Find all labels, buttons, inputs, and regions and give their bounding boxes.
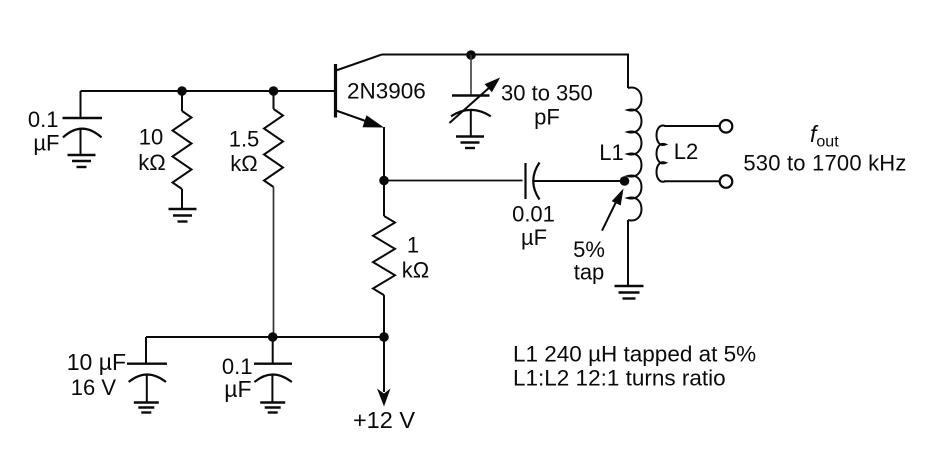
svg-text:10 µF: 10 µF (67, 349, 126, 375)
node: base rail / 1.5k junction (269, 86, 279, 96)
svg-text:530 to 1700 kHz: 530 to 1700 kHz (743, 151, 906, 176)
svg-text:1.5: 1.5 (229, 127, 260, 152)
node: bottom rail / 1k junction (379, 332, 389, 342)
svg-text:0.01: 0.01 (512, 202, 555, 227)
wire: L2 bottom to terminal (664, 180, 720, 182)
value label 1 kOhm (402, 233, 429, 283)
resistor R 10k (173, 91, 192, 208)
capacitor 10uF 16V (127, 337, 167, 402)
value label 10 uF 16 V (67, 349, 126, 400)
svg-text:kΩ: kΩ (230, 151, 257, 176)
label 5% tap (573, 237, 605, 285)
svg-text:2N3906: 2N3906 (347, 79, 426, 104)
value label 30 to 350 pF (501, 81, 593, 130)
svg-text:kΩ: kΩ (138, 150, 165, 175)
value label 1.5 kOhm (229, 127, 260, 177)
ground (below bottom 0.1uF) (260, 403, 285, 413)
svg-text:0.1: 0.1 (28, 107, 59, 132)
node: L1 5% tap (620, 176, 630, 186)
svg-text:kΩ: kΩ (402, 258, 429, 283)
svg-text:µF: µF (33, 131, 59, 156)
annotation arrow to tap (602, 189, 624, 231)
svg-text:tap: tap (574, 260, 605, 285)
wire: collector to mid node (383, 127, 385, 181)
transistor Q1 2N3906 (336, 55, 385, 128)
ground (below L1) (615, 286, 644, 299)
svg-text:L1:L2 12:1 turns ratio: L1:L2 12:1 turns ratio (513, 366, 726, 391)
ground (below 10uF) (134, 403, 159, 413)
svg-text:µF: µF (521, 225, 547, 250)
svg-text:1: 1 (407, 233, 419, 258)
node: collector / 1k / 0.01uF junction (379, 176, 389, 186)
svg-text:L1 240 µH tapped at 5%: L1 240 µH tapped at 5% (513, 341, 756, 366)
node: base rail / 10k junction (177, 86, 187, 96)
capacitor 0.01uF (526, 163, 540, 200)
wire: 0.01uF to L1 tap (534, 180, 625, 182)
inductor L1 (628, 87, 642, 285)
wire: 1.5k resistor to bottom rail (273, 187, 275, 337)
svg-text:16 V: 16 V (71, 375, 117, 400)
svg-text:+12 V: +12 V (353, 407, 415, 433)
svg-text:L2: L2 (674, 139, 698, 164)
resistor R 1k (373, 181, 395, 338)
capacitor 0.1uF (top-left) (63, 91, 103, 154)
svg-text:10: 10 (139, 125, 163, 150)
wire: base rail (81, 90, 336, 92)
node: top rail / variable capacitor junction (466, 50, 476, 60)
ground (below variable capacitor) (456, 137, 484, 149)
variable capacitor 30-350 pF (449, 55, 500, 136)
wire: L2 top to terminal (664, 125, 720, 127)
power +12V arrow (377, 337, 391, 407)
ground (below top-left 0.1uF) (68, 155, 96, 167)
capacitor 0.1uF (bottom) (254, 337, 292, 402)
svg-text:fout: fout (810, 121, 839, 151)
output terminal (bottom) (720, 175, 733, 188)
svg-text:30 to 350: 30 to 350 (501, 81, 593, 106)
value label 0.1 uF (bottom) (222, 354, 253, 402)
wire: bottom rail (146, 336, 384, 338)
value label 0.1 uF (top-left) (28, 107, 60, 156)
svg-text:5%: 5% (573, 237, 605, 262)
ground (below 10k resistor) (169, 209, 197, 222)
inductor L2 (657, 126, 666, 182)
resistor R 1.5k (264, 91, 283, 187)
wire: top rail (emitter to L1) (382, 55, 628, 89)
wire: mid node to 0.01uF (384, 180, 523, 182)
svg-text:L1: L1 (599, 140, 623, 165)
svg-text:µF: µF (224, 376, 251, 402)
output terminal (top) (720, 120, 733, 133)
value label 10 kOhm (138, 125, 165, 176)
value label 0.01 uF (512, 202, 555, 250)
node: bottom rail / 0.1uF junction (268, 332, 278, 342)
svg-text:pF: pF (534, 105, 560, 130)
